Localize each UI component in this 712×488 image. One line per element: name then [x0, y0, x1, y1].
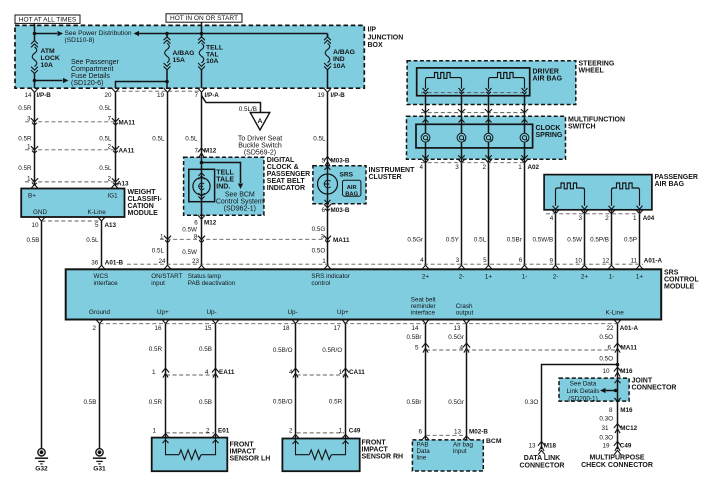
svg-text:13: 13: [453, 325, 461, 332]
svg-text:0.5B/O: 0.5B/O: [273, 398, 293, 405]
svg-text:A/BAG: A/BAG: [173, 50, 195, 57]
wire Up+ LH: [165, 324, 167, 438]
terminal multipurpose check connector: [614, 450, 621, 454]
svg-text:HOT IN ON OR START: HOT IN ON OR START: [170, 15, 238, 22]
steering wheel box: [407, 61, 576, 105]
svg-text:Link Details: Link Details: [566, 388, 599, 395]
svg-text:0.5R: 0.5R: [149, 399, 163, 406]
svg-text:LOCK: LOCK: [41, 55, 60, 62]
wire WCM ground to G32: [41, 221, 43, 449]
svg-text:M16: M16: [620, 368, 633, 375]
svg-text:I/P: I/P: [368, 27, 377, 34]
svg-text:CATION: CATION: [128, 203, 154, 210]
svg-text:0.5B/O: 0.5B/O: [273, 347, 293, 354]
svg-text:3: 3: [578, 215, 582, 222]
svg-text:20: 20: [104, 92, 112, 99]
weight classification module: [21, 189, 124, 218]
node on bus at ATM LOCK fuse: [33, 32, 37, 36]
svg-text:A04: A04: [643, 215, 655, 222]
wire Up- RH: [295, 324, 297, 439]
svg-text:E01: E01: [218, 428, 230, 435]
connector A02 row: [425, 142, 427, 265]
svg-text:0.5L: 0.5L: [313, 136, 326, 143]
svg-text:M02-B: M02-B: [469, 429, 488, 436]
svg-text:SRS: SRS: [664, 270, 679, 277]
svg-text:WCS: WCS: [94, 273, 109, 280]
wire WCM K-line to WCS interface: [101, 221, 103, 266]
node K-line in joint connector: [614, 389, 618, 393]
svg-text:SENSOR LH: SENSOR LH: [230, 455, 271, 462]
wire jog to pin 20 exit: [116, 82, 168, 89]
wire power bus: [35, 33, 58, 35]
svg-text:13: 13: [454, 429, 462, 436]
svg-text:INSTRUMENT: INSTRUMENT: [369, 167, 416, 174]
svg-text:8: 8: [194, 234, 198, 241]
svg-text:(SD200-1): (SD200-1): [568, 395, 597, 402]
svg-text:INDICATOR: INDICATOR: [267, 185, 305, 192]
wire riser from HOT AT ALL TIMES: [34, 23, 36, 33]
svg-text:IND: IND: [333, 56, 345, 63]
wire through instrument cluster: [327, 166, 329, 204]
svg-text:10A: 10A: [206, 58, 219, 65]
svg-text:0.5L: 0.5L: [185, 136, 198, 143]
svg-text:2: 2: [605, 215, 609, 222]
svg-text:IMPACT: IMPACT: [362, 446, 389, 453]
svg-text:CONNECTOR: CONNECTOR: [520, 462, 565, 469]
svg-text:CLUSTER: CLUSTER: [369, 174, 402, 181]
clock spring coil 2: [457, 133, 466, 142]
connector row steering wheel to clock spring: [421, 112, 527, 114]
connector MC12: [614, 424, 621, 428]
svg-text:19: 19: [602, 443, 610, 450]
svg-text:Fuse Details: Fuse Details: [71, 73, 110, 80]
svg-text:2+: 2+: [581, 273, 589, 280]
svg-text:0.3O: 0.3O: [599, 416, 613, 423]
wire data link connector: [542, 365, 618, 450]
svg-text:5: 5: [415, 344, 419, 351]
arrow to See Power Distribution: [58, 31, 64, 36]
svg-text:DIGITAL: DIGITAL: [267, 157, 295, 164]
svg-text:CA11: CA11: [349, 369, 365, 376]
svg-text:control: control: [311, 280, 330, 287]
svg-text:GND: GND: [33, 209, 47, 216]
squib driver air bag 2: [489, 73, 525, 89]
svg-text:17: 17: [333, 325, 341, 332]
svg-text:2: 2: [107, 143, 111, 150]
svg-text:3: 3: [455, 164, 459, 171]
svg-text:C49: C49: [349, 428, 361, 435]
svg-text:line: line: [417, 455, 427, 462]
label box HOT AT ALL TIMES: [15, 15, 80, 23]
svg-text:0.5R: 0.5R: [18, 105, 32, 112]
svg-text:0.5Gr: 0.5Gr: [448, 334, 464, 341]
svg-text:0.5L: 0.5L: [86, 237, 99, 244]
connector MA11 row upper: [25, 121, 116, 123]
wire tell-tale chain: [201, 92, 203, 265]
svg-text:M12: M12: [204, 220, 217, 227]
svg-text:6: 6: [519, 257, 523, 264]
svg-text:0.5P: 0.5P: [624, 237, 637, 244]
svg-text:A01-A: A01-A: [620, 325, 639, 332]
svg-text:C49: C49: [620, 443, 632, 450]
svg-text:16: 16: [154, 325, 162, 332]
svg-text:SEAT BELT: SEAT BELT: [267, 178, 306, 185]
svg-text:1-: 1-: [522, 273, 528, 280]
wire through digital clock box: [201, 157, 203, 215]
SRS control module box: [66, 269, 662, 319]
SRS air bag warning lamp: [325, 167, 331, 170]
node below A/BAG fuse: [165, 80, 169, 84]
svg-text:MULTIFUNCTION: MULTIFUNCTION: [568, 116, 625, 123]
svg-text:M03-B: M03-B: [331, 157, 350, 164]
svg-text:See Power Distribution: See Power Distribution: [65, 30, 132, 37]
svg-text:1: 1: [633, 215, 637, 222]
svg-text:4: 4: [459, 344, 463, 351]
svg-text:12: 12: [602, 258, 610, 265]
svg-text:CLOCK &: CLOCK &: [267, 164, 299, 171]
svg-text:Control System: Control System: [216, 199, 264, 206]
svg-text:MULTIPURPOSE: MULTIPURPOSE: [589, 454, 644, 461]
svg-text:10: 10: [602, 368, 610, 375]
svg-text:JOINT: JOINT: [632, 377, 653, 384]
svg-text:SWITCH: SWITCH: [568, 123, 596, 130]
svg-text:0.5B: 0.5B: [199, 346, 212, 353]
svg-text:I/P-A: I/P-A: [205, 92, 220, 99]
svg-text:0.5R: 0.5R: [149, 346, 163, 353]
svg-text:ON/START: ON/START: [151, 273, 182, 280]
svg-text:See Passenger: See Passenger: [71, 59, 120, 66]
svg-text:10A: 10A: [41, 62, 54, 69]
connector MA11 row lower: [426, 349, 616, 351]
svg-text:A/BAG: A/BAG: [333, 49, 355, 56]
fuse A/BAG 15A: [166, 34, 168, 37]
clock spring box: [416, 124, 533, 148]
svg-text:0.5B: 0.5B: [84, 399, 97, 406]
svg-text:BAG: BAG: [345, 191, 358, 197]
svg-text:2: 2: [482, 164, 486, 171]
fuse TELL TAL 10A: [201, 34, 203, 37]
svg-text:0.5O: 0.5O: [312, 248, 326, 255]
svg-text:0.5Gr: 0.5Gr: [407, 237, 423, 244]
svg-text:BOX: BOX: [368, 42, 384, 49]
svg-text:M18: M18: [544, 443, 557, 450]
driver air bag internal connector row: [421, 92, 526, 94]
svg-text:4: 4: [420, 257, 424, 264]
svg-text:19: 19: [157, 92, 165, 99]
svg-text:1: 1: [160, 234, 164, 241]
svg-text:0.5W/B: 0.5W/B: [533, 237, 554, 244]
svg-text:AIR BAG: AIR BAG: [533, 75, 563, 82]
multifunction switch box: [407, 116, 566, 159]
svg-text:IG1: IG1: [108, 192, 119, 199]
svg-text:0.5G: 0.5G: [312, 226, 326, 233]
svg-text:1: 1: [27, 143, 31, 150]
svg-text:B+: B+: [28, 192, 36, 199]
wire IG1 chain: [115, 92, 117, 185]
svg-text:11: 11: [631, 258, 638, 265]
svg-text:0.5L: 0.5L: [99, 105, 112, 112]
wire through joint connector: [617, 378, 619, 401]
svg-text:6: 6: [418, 429, 422, 436]
svg-text:WEIGHT: WEIGHT: [128, 189, 157, 196]
svg-text:10: 10: [31, 222, 39, 229]
node K-line data link branch: [616, 363, 620, 367]
svg-text:1+: 1+: [485, 273, 493, 280]
connector C49 multipurpose: [614, 441, 621, 445]
svg-text:A01-B: A01-B: [105, 259, 124, 266]
wire stub to See Passenger note: [35, 80, 63, 82]
ground G31: [99, 448, 101, 450]
svg-text:4: 4: [205, 369, 209, 376]
svg-text:6: 6: [607, 344, 611, 351]
passenger air bag box: [544, 175, 652, 210]
svg-text:36: 36: [91, 259, 99, 266]
svg-text:15: 15: [204, 325, 212, 332]
svg-text:0.5Y: 0.5Y: [446, 237, 460, 244]
svg-text:TELL: TELL: [216, 170, 234, 177]
svg-text:2: 2: [92, 325, 96, 332]
I/P junction box: [15, 25, 364, 88]
svg-text:0.5R/O: 0.5R/O: [322, 347, 342, 354]
clock spring coil 1: [421, 133, 430, 142]
branch wire to driver seat buckle switch: [202, 96, 261, 113]
svg-text:0.5O: 0.5O: [599, 334, 613, 341]
svg-text:CONNECTOR: CONNECTOR: [632, 384, 677, 391]
svg-text:Up+: Up+: [157, 309, 169, 316]
svg-text:10A: 10A: [333, 63, 346, 70]
wire B+ chain: [34, 92, 36, 185]
connector MA11 row middle: [160, 238, 330, 240]
svg-text:Status lamp: Status lamp: [188, 273, 222, 280]
clock spring coil 3: [484, 133, 493, 142]
svg-text:PASSENGER: PASSENGER: [267, 171, 310, 178]
svg-text:0.5R: 0.5R: [18, 165, 32, 172]
connector M16 upper: [614, 367, 621, 371]
svg-text:8: 8: [609, 407, 613, 414]
node on bus at TELL TAL fuse: [200, 32, 204, 36]
svg-text:MODULE: MODULE: [128, 210, 159, 217]
connector M18: [538, 441, 545, 445]
svg-text:STEERING: STEERING: [579, 61, 615, 68]
svg-text:0.5W: 0.5W: [567, 237, 582, 244]
svg-text:6: 6: [194, 220, 198, 227]
svg-text:0.5Gr: 0.5Gr: [448, 399, 464, 406]
svg-text:M12: M12: [204, 147, 217, 154]
svg-text:0.5Br: 0.5Br: [406, 399, 421, 406]
wire ON/START input chain: [167, 92, 169, 265]
svg-text:3: 3: [320, 234, 324, 241]
connector E01 row: [166, 432, 214, 434]
svg-text:A13: A13: [117, 180, 129, 187]
svg-text:1: 1: [339, 369, 343, 376]
svg-text:2: 2: [289, 428, 293, 435]
svg-text:13: 13: [528, 443, 536, 450]
svg-text:0.5O: 0.5O: [599, 355, 613, 362]
svg-text:M03-B: M03-B: [331, 207, 350, 214]
svg-text:7: 7: [107, 115, 111, 122]
svg-text:ATM: ATM: [41, 48, 56, 55]
svg-text:MODULE: MODULE: [664, 284, 695, 291]
instrument cluster box: [313, 166, 366, 204]
svg-text:interface: interface: [94, 280, 119, 287]
svg-text:A13: A13: [105, 222, 117, 229]
svg-text:MA11: MA11: [621, 344, 638, 351]
svg-text:AIR: AIR: [347, 185, 358, 191]
connector CA11 row: [297, 374, 345, 376]
svg-text:0.5R: 0.5R: [18, 135, 32, 142]
svg-text:4: 4: [550, 215, 554, 222]
svg-text:DATA LINK: DATA LINK: [524, 455, 560, 462]
svg-text:FRONT: FRONT: [230, 441, 255, 448]
svg-text:18: 18: [282, 325, 290, 332]
svg-text:0.3O: 0.3O: [525, 399, 539, 406]
svg-text:7: 7: [194, 147, 198, 154]
svg-text:CLOCK: CLOCK: [536, 125, 561, 132]
clock spring coil 4: [520, 133, 529, 142]
driver air bag: [417, 68, 530, 96]
digital clock box: [184, 157, 264, 215]
svg-text:Buckle Switch: Buckle Switch: [238, 142, 282, 149]
terminal data link connector: [538, 450, 545, 454]
connector A13 row lower: [38, 217, 45, 221]
node below ATM LOCK fuse: [33, 79, 37, 83]
svg-text:1+: 1+: [636, 273, 644, 280]
svg-text:EA11: EA11: [219, 369, 235, 376]
svg-text:PAB deactivation: PAB deactivation: [188, 280, 236, 287]
arrow from right on power bus: [134, 31, 140, 36]
svg-text:(SD120-6): (SD120-6): [71, 80, 103, 87]
svg-text:SENSOR RH: SENSOR RH: [362, 453, 404, 460]
svg-text:To Driver Seat: To Driver Seat: [238, 135, 282, 142]
joint connector box: [559, 378, 629, 401]
svg-text:6: 6: [321, 207, 325, 214]
svg-text:0.5L: 0.5L: [152, 247, 165, 254]
svg-text:10: 10: [575, 258, 583, 265]
svg-text:4: 4: [419, 164, 423, 171]
svg-text:input: input: [151, 280, 165, 287]
svg-text:0.5L: 0.5L: [99, 135, 112, 142]
svg-text:9: 9: [549, 258, 553, 265]
svg-text:M16: M16: [620, 407, 633, 414]
svg-text:CONTROL: CONTROL: [664, 277, 699, 284]
svg-text:1: 1: [339, 428, 343, 435]
svg-text:1: 1: [518, 164, 522, 171]
front impact sensor RH box: [282, 439, 359, 472]
svg-text:G31: G31: [93, 466, 106, 473]
svg-text:0.5Br: 0.5Br: [406, 334, 421, 341]
svg-text:AIR BAG: AIR BAG: [655, 181, 685, 188]
connector AA11 row: [25, 149, 116, 151]
front impact sensor LH box: [152, 438, 228, 472]
svg-text:MA11: MA11: [333, 237, 350, 244]
fuse ATM LOCK 10A: [34, 34, 36, 41]
connector M12 upper: [198, 148, 205, 152]
arrow to data link details: [604, 390, 616, 392]
svg-text:0.5L: 0.5L: [474, 237, 487, 244]
svg-text:0.5Br: 0.5Br: [507, 237, 522, 244]
svg-text:K-Line: K-Line: [88, 209, 107, 216]
svg-text:I/P-B: I/P-B: [331, 92, 346, 99]
connector M03-B lower: [324, 204, 331, 208]
svg-text:1: 1: [152, 428, 156, 435]
fuse A/BAG IND 10A: [327, 34, 329, 37]
squib driver air bag 1: [426, 73, 462, 89]
svg-text:CLASSIFI-: CLASSIFI-: [128, 196, 163, 203]
svg-text:I/P-B: I/P-B: [37, 92, 52, 99]
svg-text:IMPACT: IMPACT: [230, 448, 257, 455]
svg-text:0.5L: 0.5L: [99, 165, 112, 172]
svg-text:2-: 2-: [459, 273, 465, 280]
svg-text:7: 7: [194, 92, 198, 99]
wire module ground to G31: [99, 324, 101, 449]
svg-text:CHECK CONNECTOR: CHECK CONNECTOR: [581, 462, 653, 469]
svg-text:2: 2: [206, 428, 210, 435]
tell tale indicator lamp: [189, 169, 215, 201]
svg-text:Up-: Up-: [288, 309, 298, 316]
node at tell-tale branch: [200, 161, 204, 165]
connector A04 row: [555, 210, 557, 266]
svg-text:0.5B: 0.5B: [27, 237, 40, 244]
connector C49 row: [297, 432, 345, 434]
squib passenger air bag 1: [556, 183, 585, 206]
svg-text:Up+: Up+: [337, 309, 349, 316]
svg-text:(SD569-2): (SD569-2): [244, 149, 276, 156]
BCM box: [412, 440, 483, 471]
AIR BAG label plate: [343, 180, 361, 196]
svg-text:0.5B: 0.5B: [199, 399, 212, 406]
svg-text:15A: 15A: [173, 57, 186, 64]
svg-text:SRS indicator: SRS indicator: [311, 273, 350, 280]
svg-text:MC12: MC12: [620, 425, 637, 432]
svg-text:19: 19: [317, 92, 325, 99]
svg-text:14: 14: [24, 92, 32, 99]
wire SRS indicator chain: [327, 92, 329, 265]
svg-text:1-: 1-: [609, 273, 615, 280]
svg-text:14: 14: [411, 325, 419, 332]
connector M03-B upper: [324, 157, 331, 161]
svg-text:3: 3: [456, 257, 460, 264]
svg-text:SRS: SRS: [340, 171, 354, 178]
svg-text:DRIVER: DRIVER: [533, 68, 559, 75]
wires driver air bag to clock spring: [425, 96, 427, 134]
svg-text:output: output: [456, 309, 474, 316]
svg-text:Up-: Up-: [207, 309, 217, 316]
wire Up+ RH: [345, 324, 347, 439]
svg-text:See BCM: See BCM: [225, 192, 255, 199]
svg-text:0.5R: 0.5R: [329, 398, 343, 405]
svg-text:SPRING: SPRING: [536, 132, 563, 139]
svg-text:WHEEL: WHEEL: [579, 68, 605, 75]
svg-text:G32: G32: [35, 466, 48, 473]
wire K-line: [617, 324, 619, 449]
svg-text:A01-A: A01-A: [644, 258, 663, 265]
wire crash output to BCM: [466, 324, 468, 440]
svg-text:5: 5: [95, 222, 99, 229]
svg-text:0.5W: 0.5W: [182, 249, 197, 256]
wire riser from HOT IN ON OR START: [201, 22, 203, 33]
svg-text:0.5P/B: 0.5P/B: [590, 237, 609, 244]
wire seat belt reminder to BCM: [425, 324, 427, 440]
svg-text:PASSENGER: PASSENGER: [655, 174, 698, 181]
svg-text:JUNCTION: JUNCTION: [368, 34, 404, 41]
ground G32: [41, 448, 43, 450]
svg-text:interface: interface: [411, 310, 436, 317]
svg-text:5: 5: [483, 257, 487, 264]
label box HOT IN ON OR START: [166, 14, 242, 22]
svg-text:1: 1: [27, 175, 31, 182]
connector EA11 row: [166, 374, 214, 376]
svg-text:31: 31: [601, 425, 609, 432]
